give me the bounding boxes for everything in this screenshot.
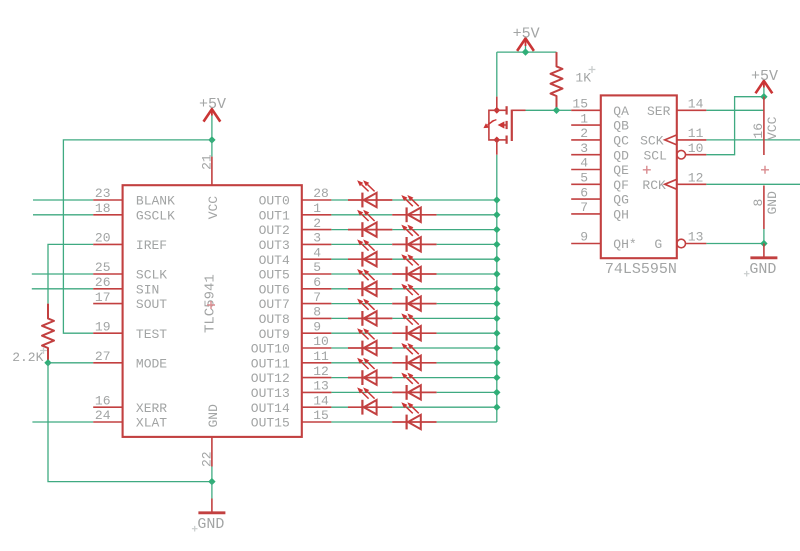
wire OUT9 to LED [331,332,392,334]
svg-text:11: 11 [313,349,329,364]
svg-text:SIN: SIN [136,282,159,297]
svg-text:11: 11 [688,126,704,141]
LED D5 [348,239,392,266]
origin cross U2 [643,166,651,174]
svg-text:26: 26 [95,275,111,290]
pin 14 OUT14 stub [302,406,332,408]
junction bus row 10 [493,344,500,351]
pin 1 QB stub [571,124,601,126]
junction VCC node [208,136,215,143]
origin cross R2 [589,66,596,73]
op-amp — IC U1 TLC5941 body [123,185,302,437]
wire OUT1 to LED [331,214,392,216]
LED D8 [392,284,436,311]
svg-text:12: 12 [313,364,329,379]
svg-text:15: 15 [572,97,588,112]
svg-text:TEST: TEST [136,327,167,342]
origin cross U1 [207,301,215,309]
svg-text:OUT1: OUT1 [259,208,290,223]
pin 13 G stub [686,243,707,245]
svg-text:QB: QB [613,119,629,134]
svg-text:+5V: +5V [751,68,778,85]
wire OUT0 to LED [331,199,348,201]
svg-text:IREF: IREF [136,238,167,253]
wire SER to VCC rail [706,109,764,111]
svg-text:1: 1 [313,201,321,216]
wire XLAT net [32,421,93,423]
wire LED D16 to bus corner [437,421,497,423]
svg-text:GND: GND [765,191,780,215]
junction bus row 5 [493,270,500,277]
svg-text:14: 14 [688,97,704,112]
pin 12 OUT12 stub [302,377,332,379]
power +5V supply (LED rail) [513,26,540,51]
inversion bubble pin 13 [677,239,686,248]
svg-text:21: 21 [200,154,215,170]
svg-text:SER: SER [647,104,671,119]
pin 16 XERR stub [93,406,122,408]
svg-text:XLAT: XLAT [136,416,167,431]
svg-text:12: 12 [688,171,704,186]
pin 5 OUT5 stub [302,273,332,275]
svg-text:OUT2: OUT2 [259,223,290,238]
clock mark pin 11 [665,135,677,145]
wire LED D6 to bus [437,273,497,275]
pin 28 OUT0 stub [302,199,332,201]
svg-text:OUT7: OUT7 [259,297,290,312]
inversion bubble pin 10 [677,150,686,159]
junction +5V/pin16 node [760,93,767,100]
wire VCC node to TEST [63,140,212,333]
junction bus row 4 [493,256,500,263]
pin 22 GND stub [211,437,213,467]
svg-text:13: 13 [688,230,704,245]
svg-text:OUT4: OUT4 [259,253,290,268]
pin 2 QC stub [571,139,601,141]
resistor R1 2.2K [42,304,54,363]
svg-text:QH: QH [613,208,629,223]
pin 9 OUT9 stub [302,332,332,334]
svg-text:10: 10 [313,334,329,349]
wire IREF to R1 [48,244,93,303]
svg-text:22: 22 [200,451,215,467]
wire BLANK net [33,199,93,201]
junction bus row 0 [493,196,500,203]
wire OUT6 to LED [331,288,348,290]
ground GND (U2) [744,244,778,279]
svg-text:OUT8: OUT8 [259,312,290,327]
ground GND (TLC) [192,499,226,534]
svg-text:5: 5 [313,260,321,275]
wire R1 node down to GND rail [48,363,212,482]
pin 15 OUT15 stub [302,421,332,423]
svg-text:74LS595N: 74LS595N [605,261,677,278]
origin cross R1 [40,347,47,354]
wire SCL tied high [706,97,764,155]
pin 16 VCC power pin [763,97,765,155]
svg-text:24: 24 [95,408,111,423]
pin 19 TEST stub [93,332,122,334]
pin 10 OUT10 stub [302,347,332,349]
pin 6 OUT6 stub [302,288,332,290]
svg-text:MODE: MODE [136,356,167,371]
svg-text:15: 15 [313,408,329,423]
svg-text:G: G [654,237,662,252]
svg-text:RCK: RCK [642,178,666,193]
LED D13 [348,358,392,385]
svg-text:OUT15: OUT15 [251,416,290,431]
svg-text:BLANK: BLANK [136,194,175,209]
junction +5V rail [522,48,529,55]
svg-text:3: 3 [580,141,588,156]
wire LED D2 to bus [437,214,497,216]
svg-text:GND: GND [206,404,221,428]
wire OUT12 to LED [331,377,348,379]
pin 10 SCL stub [686,154,707,156]
pin 2 OUT2 stub [302,229,332,231]
wire LED D7 to bus [392,288,496,290]
wire GND node down [211,482,213,499]
svg-text:9: 9 [313,319,321,334]
wire SIN net [32,288,93,290]
pin 5 QF stub [571,183,601,185]
svg-text:14: 14 [313,393,329,408]
clock mark pin 12 [665,179,677,189]
svg-text:27: 27 [95,349,111,364]
wire SCLK net [32,273,93,275]
LED D15 [348,387,392,414]
pin 11 SCK stub [677,139,707,141]
pin 11 OUT11 stub [302,362,332,364]
svg-text:VCC: VCC [765,116,780,140]
svg-text:7: 7 [313,290,321,305]
wire LED D11 to bus [392,347,496,349]
wire rail to Q1 source [496,52,498,97]
svg-text:OUT14: OUT14 [251,401,290,416]
wire Q1 gate to R2/pin15 node [526,109,557,111]
svg-text:OUT6: OUT6 [259,282,290,297]
pin 17 SOUT stub [93,303,122,305]
wire GSCLK net [33,214,93,216]
svg-text:4: 4 [313,245,321,260]
junction GND node (U2) [760,240,767,247]
wire LED D13 to bus [392,377,496,379]
svg-text:GND: GND [749,261,776,278]
junction bus row 1 [493,211,500,218]
pin 18 GSCLK stub [93,214,122,216]
pin 24 XLAT stub [93,421,122,423]
LED D1 [348,180,392,207]
junction MODE/R1 node [44,359,51,366]
pin 6 QG stub [571,198,601,200]
wire OUT8 to LED [331,317,348,319]
wire +5V rail top [497,46,557,52]
origin cross U2 power part [761,166,769,174]
svg-text:OUT3: OUT3 [259,238,290,253]
junction bus row 8 [493,315,500,322]
svg-text:19: 19 [95,319,111,334]
svg-text:4: 4 [580,156,588,171]
wire LED D12 to bus [437,362,497,364]
wire pin22 to GND node [211,467,213,482]
svg-text:OUT11: OUT11 [251,356,290,371]
svg-text:SCK: SCK [640,134,664,149]
svg-text:QF: QF [613,178,629,193]
power +5V supply (U2 VCC) [751,68,778,93]
svg-text:7: 7 [580,200,588,215]
transistor Q1 P-MOSFET [483,97,525,155]
svg-text:17: 17 [95,290,111,305]
wire OUT5 to LED [331,273,392,275]
wire node to U2 pin 15 [557,109,572,111]
LED D14 [392,373,436,400]
svg-text:2: 2 [580,126,588,141]
wire VCC node to pin 21 [211,140,213,157]
wire LED D9 to bus [392,317,496,319]
pin 4 QE stub [571,169,601,171]
svg-text:QH*: QH* [613,237,636,252]
LED D4 [392,225,436,252]
wire LED D15 to bus [392,406,496,408]
junction bus row 3 [493,241,500,248]
LED D16 [392,402,436,429]
svg-text:QC: QC [613,134,629,149]
wire OUT14 to LED [331,406,348,408]
svg-text:5: 5 [580,171,588,186]
svg-text:OUT13: OUT13 [251,386,290,401]
svg-text:2: 2 [313,216,321,231]
wire LED anode bus vertical [496,155,498,422]
junction bus row 13 [493,389,500,396]
svg-text:6: 6 [580,185,588,200]
pin 8 OUT8 stub [302,317,332,319]
pin 7 OUT7 stub [302,303,332,305]
svg-text:8: 8 [313,305,321,320]
svg-text:SOUT: SOUT [136,297,167,312]
svg-text:6: 6 [313,275,321,290]
svg-text:QE: QE [613,163,629,178]
svg-text:XERR: XERR [136,401,167,416]
wire MODE net [48,362,93,364]
wire OUT11 to LED [331,362,392,364]
junction bus row 6 [493,285,500,292]
junction bus row 14 [493,404,500,411]
wire RCK net [706,183,800,185]
wire OUT15 to LED [331,421,392,423]
svg-text:18: 18 [95,201,111,216]
LED D10 [392,313,436,340]
svg-text:OUT12: OUT12 [251,371,290,386]
LED D12 [392,343,436,370]
svg-text:QA: QA [613,104,629,119]
pin 15 QA stub [571,109,601,111]
svg-text:OUT0: OUT0 [259,194,290,209]
svg-text:OUT9: OUT9 [259,327,290,342]
svg-text:20: 20 [95,231,111,246]
svg-text:16: 16 [95,393,111,408]
svg-text:GND: GND [197,516,224,533]
wire OUT4 to LED [331,258,348,260]
pin 7 QH stub [571,213,601,215]
LED D11 [348,328,392,355]
pin 13 OUT13 stub [302,391,332,393]
svg-text:OUT10: OUT10 [251,342,290,357]
wire OUT10 to LED [331,347,348,349]
pin 27 MODE stub [93,362,122,364]
svg-text:13: 13 [313,379,329,394]
pin 4 OUT4 stub [302,258,332,260]
junction bus row 12 [493,374,500,381]
junction bus row 9 [493,330,500,337]
LED D9 [348,299,392,326]
pin 3 QD stub [571,154,601,156]
junction GND node (TLC) [208,478,215,485]
svg-text:10: 10 [688,141,704,156]
svg-text:1: 1 [580,111,588,126]
pin 9 QH* stub [571,243,601,245]
junction bus row 7 [493,300,500,307]
pin 21 VCC stub [211,157,213,186]
LED D7 [348,269,392,296]
svg-text:23: 23 [95,186,111,201]
pin 3 OUT3 stub [302,243,332,245]
svg-text:OUT5: OUT5 [259,268,290,283]
svg-text:SCLK: SCLK [136,268,167,283]
LED D3 [348,210,392,237]
pin 1 OUT1 stub [302,214,332,216]
pin 25 SCLK stub [93,273,122,275]
wire SCK net [706,139,800,141]
svg-text:25: 25 [95,260,111,275]
svg-text:+5V: +5V [513,26,540,43]
wire G to GND node [706,243,764,245]
LED D2 [392,195,436,222]
wire OUT13 to LED [331,391,392,393]
wire pin8 to GND node [763,229,765,244]
wire +5V to junction [763,88,765,97]
pin 20 IREF stub [93,243,122,245]
IC U2 74LS595N body [601,95,677,258]
wire LED D1 to bus [392,199,496,201]
svg-text:3: 3 [313,231,321,246]
LED D6 [392,254,436,281]
junction bus row 11 [493,359,500,366]
svg-text:9: 9 [580,230,588,245]
svg-text:+5V: +5V [199,96,226,113]
wire OUT2 to LED [331,229,348,231]
svg-text:28: 28 [313,186,329,201]
resistor R2 1K [551,52,563,110]
wire LED D8 to bus [437,303,497,305]
svg-text:1K: 1K [575,71,591,86]
svg-text:2.2K: 2.2K [12,350,43,365]
pin 23 BLANK stub [93,199,122,201]
svg-text:QD: QD [613,148,629,163]
junction gate/R2/pin15 node [553,107,560,114]
wire LED D5 to bus [392,258,496,260]
junction bus row 2 [493,226,500,233]
pin 12 RCK stub [677,183,707,185]
wire LED D10 to bus [437,332,497,334]
svg-text:QG: QG [613,193,629,208]
wire LED D14 to bus [437,391,497,393]
wire LED D3 to bus [392,229,496,231]
pin 26 SIN stub [93,288,122,290]
power +5V supply (TLC VCC) [199,96,226,121]
wire OUT7 to LED [331,303,392,305]
pin 14 SER stub [677,109,707,111]
svg-text:SCL: SCL [643,148,666,163]
wire +5V to VCC node [211,116,213,140]
wire LED D4 to bus [437,243,497,245]
svg-text:VCC: VCC [206,196,221,220]
svg-text:GSCLK: GSCLK [136,208,175,223]
pin 8 GND power pin [763,186,765,230]
wire OUT3 to LED [331,243,392,245]
